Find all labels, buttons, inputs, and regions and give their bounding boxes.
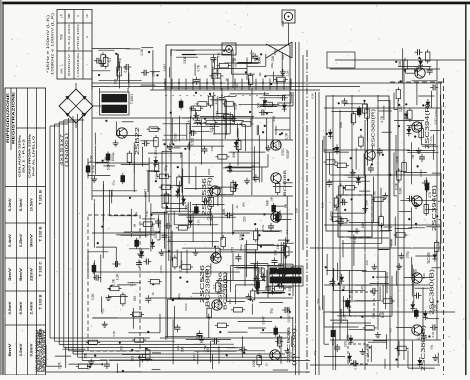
- svg-text:100µ: 100µ: [239, 244, 243, 251]
- svg-text:6.8K: 6.8K: [123, 65, 127, 73]
- svg-text:5.6K: 5.6K: [145, 211, 149, 217]
- svg-text:100µ: 100µ: [270, 62, 274, 69]
- svg-text:47µ: 47µ: [348, 306, 352, 312]
- svg-text:330: 330: [288, 286, 292, 292]
- svg-text:0.3mV: 0.3mV: [19, 197, 23, 211]
- svg-text:22mV: 22mV: [30, 267, 34, 281]
- svg-text:6.8K: 6.8K: [399, 187, 403, 195]
- svg-text:0.047: 0.047: [216, 111, 220, 119]
- svg-text:0.4mV: 0.4mV: [8, 233, 12, 247]
- svg-text:220: 220: [332, 340, 336, 346]
- svg-text:10.5mV: 10.5mV: [30, 197, 34, 211]
- svg-text:0.6mV: 0.6mV: [8, 300, 12, 314]
- svg-text:3.3K: 3.3K: [112, 278, 116, 286]
- svg-text:10K: 10K: [269, 197, 273, 202]
- svg-text:100K: 100K: [207, 168, 211, 175]
- svg-text:P=P AL LIVELLO: P=P AL LIVELLO: [32, 135, 36, 176]
- svg-text:SU 1 - P.1+2: SU 1 - P.1+2: [22, 138, 26, 173]
- svg-text:10K: 10K: [180, 346, 184, 353]
- svg-text:10K: 10K: [206, 347, 210, 352]
- svg-text:50µ: 50µ: [164, 165, 168, 171]
- svg-text:0.033: 0.033: [419, 169, 423, 177]
- svg-text:68K: 68K: [355, 227, 359, 234]
- svg-text:0.25mV: 0.25mV: [19, 233, 23, 247]
- svg-text:0.8mV: 0.8mV: [30, 342, 34, 356]
- svg-text:47µ: 47µ: [101, 309, 105, 315]
- svg-text:0.01: 0.01: [261, 224, 265, 230]
- svg-text:REGISTRAZIONE: REGISTRAZIONE: [12, 90, 16, 144]
- svg-text:0.01: 0.01: [434, 118, 438, 125]
- svg-text:10K: 10K: [228, 299, 232, 304]
- svg-text:470µ: 470µ: [91, 165, 95, 172]
- svg-text:50µ: 50µ: [430, 344, 434, 349]
- svg-text:50µ: 50µ: [134, 211, 138, 216]
- svg-text:RIPRODUZIONE: RIPRODUZIONE: [6, 91, 10, 143]
- svg-text:1K: 1K: [224, 78, 228, 82]
- svg-text:100µ: 100µ: [364, 343, 368, 350]
- svg-text:S.S.Q.10%: S.S.Q.10%: [67, 23, 71, 50]
- svg-text:470: 470: [252, 165, 256, 171]
- svg-text:68K: 68K: [339, 121, 343, 128]
- svg-text:0.033: 0.033: [220, 284, 224, 292]
- svg-text:100KHz e 100mV (L.K): 100KHz e 100mV (L.K): [51, 13, 55, 75]
- svg-text:220: 220: [243, 216, 247, 222]
- svg-text:8.2K: 8.2K: [390, 239, 394, 245]
- svg-text:8.2K: 8.2K: [321, 202, 325, 208]
- svg-text:47µ: 47µ: [177, 293, 181, 298]
- svg-text:0.1: 0.1: [213, 284, 217, 289]
- svg-text:50µ: 50µ: [316, 298, 320, 303]
- svg-text:100K: 100K: [252, 359, 256, 368]
- svg-text:0.1: 0.1: [236, 266, 240, 270]
- svg-text:100K: 100K: [396, 155, 400, 164]
- svg-text:15K: 15K: [84, 352, 88, 359]
- svg-text:9mV: 9mV: [19, 267, 23, 281]
- svg-text:220: 220: [399, 106, 403, 112]
- svg-text:5.6K: 5.6K: [196, 332, 200, 340]
- svg-text:10K: 10K: [258, 269, 262, 274]
- svg-text:4.7K: 4.7K: [380, 115, 384, 123]
- svg-text:100K: 100K: [110, 189, 114, 196]
- svg-text:470: 470: [389, 328, 393, 333]
- svg-text:0.047: 0.047: [287, 314, 291, 322]
- svg-text:100µ: 100µ: [273, 49, 277, 56]
- svg-text:47µ: 47µ: [313, 350, 317, 355]
- svg-text:1K: 1K: [235, 205, 239, 209]
- svg-text:0.01: 0.01: [330, 215, 334, 221]
- svg-text:50µ: 50µ: [283, 244, 287, 250]
- svg-text:100K: 100K: [183, 56, 187, 65]
- svg-text:15K: 15K: [152, 70, 156, 77]
- svg-text:1M: 1M: [133, 223, 137, 228]
- svg-text:0.033: 0.033: [434, 109, 438, 117]
- svg-text:0.1: 0.1: [285, 229, 289, 233]
- svg-text:15K: 15K: [398, 60, 402, 67]
- svg-text:2.2K: 2.2K: [214, 98, 218, 104]
- svg-text:3.3K: 3.3K: [239, 233, 243, 241]
- svg-text:1M: 1M: [318, 306, 322, 311]
- svg-text:50K: 50K: [60, 33, 64, 40]
- svg-text:100K: 100K: [257, 56, 261, 65]
- svg-text:0.047: 0.047: [354, 362, 358, 370]
- svg-text:50K: 50K: [60, 68, 64, 73]
- svg-text:1M: 1M: [411, 154, 415, 159]
- svg-text:470: 470: [231, 247, 235, 253]
- svg-text:6.8K: 6.8K: [180, 260, 184, 266]
- svg-text:330: 330: [210, 146, 214, 151]
- svg-text:220: 220: [233, 62, 237, 67]
- svg-text:8.2K: 8.2K: [422, 273, 426, 279]
- svg-text:4.7K: 4.7K: [197, 220, 201, 226]
- svg-text:2.2K: 2.2K: [58, 361, 62, 369]
- svg-text:0.047: 0.047: [261, 316, 265, 324]
- svg-text:50µ: 50µ: [268, 270, 272, 276]
- svg-text:0.047: 0.047: [192, 353, 196, 361]
- svg-text:0.033: 0.033: [205, 269, 209, 277]
- svg-text:1M: 1M: [284, 203, 288, 208]
- svg-text:4.7K: 4.7K: [196, 64, 200, 72]
- svg-text:0.2mV: 0.2mV: [8, 197, 12, 211]
- svg-text:8.2K: 8.2K: [311, 93, 315, 99]
- svg-text:470: 470: [168, 236, 172, 242]
- svg-text:100K: 100K: [278, 209, 282, 218]
- svg-text:68K: 68K: [232, 151, 236, 158]
- svg-text:3.3K: 3.3K: [91, 293, 95, 301]
- svg-text:0.033: 0.033: [184, 303, 188, 311]
- svg-text:3.3K: 3.3K: [346, 334, 350, 342]
- svg-text:600mV: 600mV: [67, 54, 71, 76]
- svg-text:50µ: 50µ: [270, 308, 274, 314]
- svg-text:27KΩ 10%: 27KΩ 10%: [76, 23, 80, 50]
- svg-text:100µ: 100µ: [406, 251, 410, 259]
- svg-text:15K: 15K: [253, 265, 257, 272]
- svg-text:33K: 33K: [272, 115, 276, 122]
- svg-text:390: 390: [133, 296, 137, 302]
- svg-text:T 102 B: T 102 B: [39, 226, 43, 242]
- svg-text:330: 330: [114, 79, 118, 85]
- svg-text:0.047: 0.047: [162, 64, 166, 72]
- svg-text:50µ: 50µ: [117, 58, 121, 64]
- svg-text:470: 470: [428, 192, 432, 198]
- svg-text:5.6K: 5.6K: [290, 266, 294, 272]
- svg-text:(1N4001): (1N4001): [64, 132, 69, 167]
- svg-text:3mV: 3mV: [8, 267, 12, 281]
- svg-text:0.033: 0.033: [191, 138, 195, 146]
- svg-text:SC45: SC45: [426, 252, 431, 264]
- svg-text:6.5mV: 6.5mV: [19, 300, 23, 314]
- svg-text:4.7K: 4.7K: [104, 156, 108, 164]
- svg-text:LOADING: LOADING: [76, 52, 80, 77]
- svg-text:100K: 100K: [201, 275, 205, 282]
- svg-text:25µ: 25µ: [186, 144, 190, 149]
- svg-text:*1KHz e 100mV (L.K): *1KHz e 100mV (L.K): [46, 15, 50, 73]
- svg-text:0.1: 0.1: [417, 335, 421, 340]
- svg-text:50µ: 50µ: [250, 117, 254, 123]
- svg-text:0.033: 0.033: [169, 48, 173, 56]
- svg-text:47µ: 47µ: [281, 55, 285, 60]
- svg-text:56K: 56K: [257, 102, 261, 109]
- svg-text:10K: 10K: [294, 208, 298, 213]
- svg-text:8mV: 8mV: [8, 342, 12, 356]
- svg-text:18K: 18K: [415, 66, 419, 73]
- svg-text:0.1: 0.1: [108, 58, 112, 63]
- svg-text:68K: 68K: [222, 208, 226, 215]
- svg-text:68K: 68K: [361, 221, 365, 228]
- svg-text:390: 390: [185, 204, 189, 210]
- svg-text:0.1: 0.1: [415, 126, 419, 131]
- svg-text:100K: 100K: [287, 306, 291, 315]
- svg-text:68K: 68K: [242, 202, 246, 207]
- svg-text:2.4mV: 2.4mV: [30, 300, 34, 314]
- svg-text:1K: 1K: [265, 362, 269, 366]
- svg-text:47µ: 47µ: [222, 116, 226, 122]
- svg-text:120: 120: [231, 58, 235, 63]
- svg-text:25µ: 25µ: [288, 352, 292, 357]
- svg-text:0.01: 0.01: [353, 237, 357, 243]
- svg-text:3.3K: 3.3K: [189, 106, 193, 112]
- svg-text:4.7K: 4.7K: [251, 52, 255, 58]
- svg-text:15K: 15K: [276, 243, 280, 250]
- svg-text:1M: 1M: [372, 191, 376, 196]
- svg-text:1K: 1K: [85, 14, 89, 18]
- svg-text:50K: 50K: [67, 13, 71, 18]
- svg-text:10K: 10K: [176, 345, 180, 350]
- svg-text:0.047: 0.047: [144, 189, 148, 197]
- svg-text:T 101 B: T 101 B: [39, 189, 43, 205]
- svg-text:46Ω: 46Ω: [281, 20, 285, 27]
- svg-text:1M: 1M: [258, 72, 262, 77]
- svg-text:1K: 1K: [161, 253, 165, 257]
- svg-text:T 103 B: T 103 B: [39, 294, 43, 310]
- svg-text:T 102 C: T 102 C: [39, 261, 43, 277]
- svg-text:50µ: 50µ: [212, 72, 216, 77]
- svg-text:0.01: 0.01: [431, 331, 435, 337]
- svg-text:50µ: 50µ: [234, 104, 238, 110]
- svg-text:L: L: [60, 64, 64, 66]
- svg-text:68K: 68K: [365, 199, 369, 206]
- svg-text:653F: 653F: [285, 149, 290, 159]
- svg-text:25µ: 25µ: [111, 180, 115, 185]
- svg-text:2SC380(R): 2SC380(R): [371, 108, 376, 147]
- svg-text:2.2K: 2.2K: [434, 304, 438, 312]
- svg-text:47µ: 47µ: [429, 136, 433, 141]
- svg-text:100K: 100K: [151, 223, 155, 232]
- svg-text:0.033: 0.033: [174, 133, 178, 141]
- svg-text:18K: 18K: [366, 351, 370, 358]
- svg-text:1000µ: 1000µ: [111, 152, 115, 161]
- svg-text:6.8K: 6.8K: [112, 331, 116, 337]
- svg-text:8.2K: 8.2K: [334, 203, 338, 211]
- svg-text:18K: 18K: [341, 197, 345, 204]
- svg-text:390: 390: [120, 346, 124, 352]
- svg-text:100µ: 100µ: [189, 213, 193, 220]
- svg-text:T1501: T1501: [130, 94, 134, 104]
- svg-text:5.6K: 5.6K: [89, 155, 93, 163]
- svg-text:10K: 10K: [130, 355, 134, 362]
- svg-text:0.033: 0.033: [159, 265, 163, 273]
- svg-text:2.2K: 2.2K: [343, 313, 347, 321]
- svg-text:6.8K: 6.8K: [274, 144, 278, 150]
- svg-text:47µ: 47µ: [378, 312, 382, 317]
- svg-text:2.2K: 2.2K: [371, 312, 375, 318]
- svg-text:9mV: 9mV: [30, 233, 34, 247]
- svg-text:33K: 33K: [155, 173, 159, 180]
- svg-text:68K: 68K: [217, 302, 221, 309]
- svg-text:470: 470: [361, 284, 365, 290]
- svg-text:33K: 33K: [217, 52, 221, 57]
- svg-text:2.2K: 2.2K: [140, 48, 144, 56]
- svg-text:2.2K: 2.2K: [285, 70, 289, 76]
- svg-text:100µ: 100µ: [414, 269, 418, 276]
- svg-text:1K: 1K: [151, 292, 155, 296]
- svg-text:3.5mV: 3.5mV: [19, 342, 23, 356]
- svg-text:47µ: 47µ: [235, 83, 239, 88]
- svg-text:56K: 56K: [180, 151, 184, 158]
- svg-text:33K: 33K: [274, 249, 278, 256]
- svg-text:0.1: 0.1: [130, 281, 134, 286]
- svg-text:220: 220: [365, 260, 369, 265]
